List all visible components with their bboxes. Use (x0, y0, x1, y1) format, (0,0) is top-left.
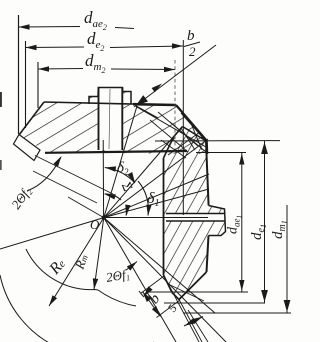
b/2 measurement diagonal (134, 45, 216, 107)
delta1 arc (138, 181, 148, 216)
extension line d_m2 right (dashed) (174, 60, 176, 152)
chamfer inner parallel line (181, 113, 204, 139)
gear 2 bottom edge (45, 151, 187, 153)
2theta_f1 arc arrows (126, 262, 137, 271)
gear 2 hub outline (89, 88, 131, 105)
b dim boundary through chamfer corner (141, 276, 165, 294)
extension line d_e2 right (182, 40, 184, 215)
extension line d_m2 left (37, 62, 39, 108)
gear 1 axis (horizontal through O) (104, 217, 208, 219)
short line into O from upper-left (68, 197, 104, 218)
gear 1 bottom chamfer (164, 275, 173, 293)
gear 1 bore upper line (166, 213, 226, 215)
gear 2 bore (white) (99, 87, 122, 150)
gear 1 right edge lower (207, 236, 209, 273)
gear1 bottom internal tooth line (168, 284, 204, 301)
b dim boundary through tip corner (157, 300, 181, 318)
gear 1 hatched body (164, 127, 226, 300)
extension of gear1 bottom edges (164, 275, 200, 342)
page edge mark top left (0, 92, 2, 107)
extension line d_ae2 left (18, 15, 20, 134)
gear 2 left tip facet (14, 135, 41, 161)
gear 1 bore lower line (166, 220, 226, 222)
face cone line gear 2 (O to top tooth corner) (104, 106, 137, 218)
Re line down-left (49, 218, 104, 306)
ref line bottom d_e1 (164, 302, 265, 304)
gear 1 left edge (163, 158, 165, 275)
gear 1 bore (white) (166, 214, 226, 222)
gear 1 top chamfer (164, 137, 174, 158)
face cone line gear 1 upper (104, 128, 181, 218)
gear 2 top edge (44, 102, 176, 105)
secondary left line (33, 171, 97, 203)
page edge mark middle left (0, 160, 2, 170)
apex point O blob (102, 215, 106, 219)
dimension line d_e2 (26, 46, 85, 49)
face generator through tooth zone (136, 107, 206, 148)
root cone line gear 2 left (through left rim corner) (35, 156, 113, 195)
gear 2 bore right line (121, 88, 123, 151)
shallow left line (0, 218, 104, 249)
gear 1 hub outline (209, 206, 226, 236)
dimension b (143, 292, 161, 317)
ref line bottom d_m1 (183, 312, 291, 314)
gear 1 bottom tip facet edge (172, 293, 179, 300)
outer arc (Re) (0, 275, 154, 342)
pitch line lower extension (104, 218, 226, 342)
gear 2 hub hatched (89, 88, 131, 105)
dimension 5 (184, 317, 203, 327)
ref line top d_e1 (155, 140, 280, 142)
gear 1 top tip facet edge (174, 127, 183, 138)
ref line top d_ae1 (196, 152, 246, 154)
dimension line d_m2 (38, 68, 83, 71)
root line gear 1 upper a (104, 174, 209, 218)
2theta_f2 arc (27, 157, 61, 191)
delta2 arc (105, 168, 135, 184)
lower fan line to gear1 bottom corner (104, 218, 215, 313)
pitch cone line upper (104, 139, 208, 218)
gear 2 bore left line (98, 88, 100, 151)
dimension line d_m1 (286, 205, 288, 313)
gear 1 bottom root edge (179, 272, 207, 300)
gear 2 right end face (206, 141, 209, 154)
gear 2 right chamfer (176, 105, 207, 141)
dimension line d_e1 (264, 141, 266, 303)
gear 2 hatched body (19, 102, 208, 154)
gear 1 top tip facet (white) (174, 127, 189, 141)
gear 2 bore centerline (faint) (109, 89, 110, 149)
inner arc (Rm) (26, 249, 98, 290)
gear 1 top root edge (183, 127, 208, 142)
extension line d_e2 left (25, 41, 27, 128)
root line gear 1 upper b (104, 189, 209, 218)
gear 2 left chamfer (19, 102, 44, 135)
lower fan line steep (to b dim zone) (104, 218, 176, 342)
Rm line down (94, 218, 104, 290)
dimension line d_ae1 (241, 153, 243, 292)
dimension line d_ae2 (19, 26, 81, 29)
mesh zone tooth strokes (150, 120, 188, 152)
svg-text:b: b (187, 28, 195, 44)
svg-text:2: 2 (189, 44, 196, 59)
gear 2 axis (vertical through O) (102, 140, 104, 218)
svg-text:O: O (90, 217, 100, 232)
gear 1 right edge upper (206, 142, 209, 206)
Sigma arc (105, 194, 122, 200)
ref line bottom d_ae1 (146, 291, 248, 293)
